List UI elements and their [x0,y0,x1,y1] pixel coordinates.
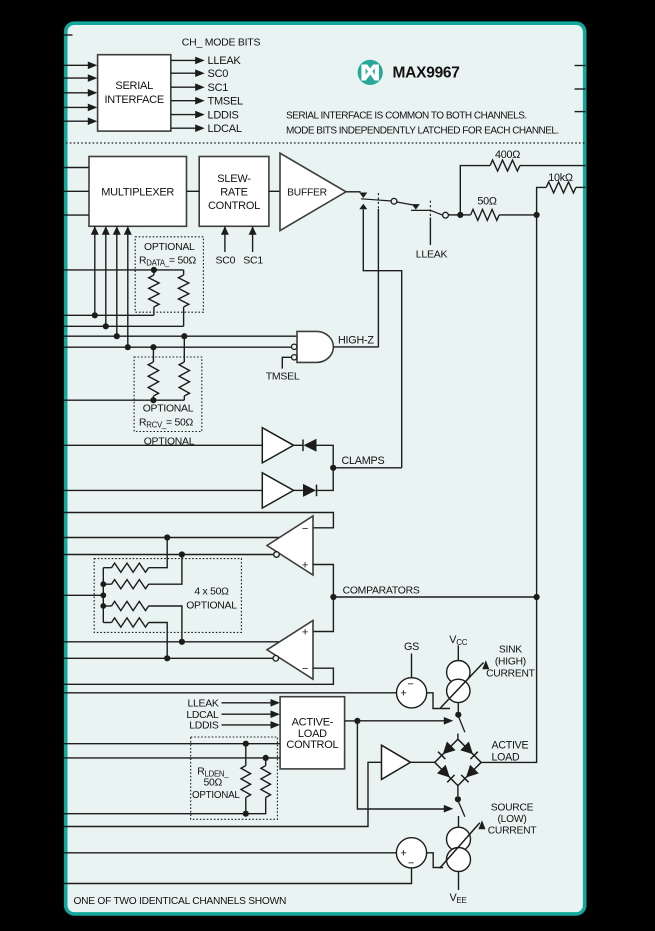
resistor T3 [103,601,182,641]
diode bridge TL [438,742,456,760]
caption [74,896,287,907]
svg-text:MODE BITS INDEPENDENTLY LATCHE: MODE BITS INDEPENDENTLY LATCHED FOR EACH… [286,125,559,136]
svg-text:SC1: SC1 [208,82,229,94]
svg-text:(LOW): (LOW) [497,814,526,825]
wire source amp out [427,853,443,868]
svg-text:LOAD: LOAD [492,752,520,764]
note text [286,110,559,136]
wire bridge right label [492,739,529,763]
wire clamp top diode lead [294,444,303,446]
svg-text:RATE: RATE [220,187,248,199]
wire gs out [427,693,450,709]
wire comp2 minus [64,668,333,684]
dashed separator [66,142,586,144]
and gate U3 [292,331,334,362]
junction node A [457,212,463,218]
wire bus B [64,325,184,327]
junction comp2 edge [179,639,185,645]
svg-text:400Ω: 400Ω [495,149,520,161]
svg-text:SOURCE: SOURCE [491,802,534,813]
svg-text:CH_ MODE BITS: CH_ MODE BITS [182,37,261,49]
wire highz out [334,346,379,348]
svg-text:10kΩ: 10kΩ [548,172,573,184]
wire sink switch in [357,717,453,725]
wire serial output LDCAL [171,123,242,135]
svg-text:CONTROL: CONTROL [286,739,338,751]
resistor 400 [490,149,520,171]
svg-text:BUFFER: BUFFER [287,188,327,199]
wire mux input 1 [64,167,89,169]
svg-text:TMSEL: TMSEL [266,371,300,383]
wire comparators out [333,596,536,598]
diode D1 [303,439,317,452]
label source current [488,802,538,836]
label sink current [486,644,536,679]
wire source lead [458,816,460,827]
wire serial input 5 [64,117,97,125]
svg-text:SC1: SC1 [243,255,263,267]
wire gs stub [411,654,413,678]
switch S2 lever [411,210,443,215]
label COMPARATORS [343,585,420,596]
resistor T1 [103,538,167,573]
wire 400 riser [460,166,490,215]
svg-text:CONTROL: CONTROL [208,200,260,212]
resistor RLDEN2 [246,758,271,814]
junction 4x50 in [100,592,106,598]
svg-text:ONE OF TWO IDENTICAL CHANNELS: ONE OF TWO IDENTICAL CHANNELS SHOWN [74,896,287,907]
label GS [404,641,419,653]
comparator U4 [267,516,313,575]
wire serial output SC0 [171,68,228,80]
svg-text:LDDIS: LDDIS [208,109,239,121]
optional RRCV box [134,357,202,432]
wire SC1 [243,226,263,266]
lleak control dashed [429,201,431,218]
wire comp1 edge in [64,537,280,539]
resistor RRCV1 [148,347,158,400]
buffer U2 [280,153,346,230]
wire clamp feedback [359,204,401,468]
label CLAMPS [342,455,385,467]
wire rlden bottom [64,813,246,815]
wire bridge top [457,734,459,740]
junction rrcv left top [150,344,156,350]
right edge stub 2 [575,88,586,90]
label optional clamps [144,437,195,448]
wire pole to node A [448,214,458,216]
current source source [440,820,486,871]
svg-text:LLEAK: LLEAK [416,249,448,261]
svg-text:50Ω: 50Ω [477,195,497,207]
wire comp1 bubble in [64,554,274,556]
wire node C down [481,597,536,762]
label LLEAK switch [416,249,448,261]
vee label [449,892,466,905]
svg-text:SINK: SINK [499,644,522,655]
label HIGH-Z [338,334,374,346]
junction mux tap 3 [114,333,120,339]
svg-text:TMSEL: TMSEL [208,96,244,108]
clamp buffer bottom [262,473,293,508]
vcc label [449,634,467,647]
resistor RDATA1 [149,270,159,315]
svg-text:LLEAK: LLEAK [208,55,242,67]
svg-text:ACTIVE: ACTIVE [492,739,529,751]
wire serial output LDDIS [171,109,239,121]
wire clamp top out [317,445,334,468]
svg-text:OPTIONAL: OPTIONAL [192,790,240,801]
resistor RDATA2 [178,270,188,326]
wire bridge bottom [457,786,459,796]
wire gs in [64,692,397,694]
svg-text:LDCAL: LDCAL [186,710,219,721]
highz control dashed [377,193,379,209]
junction node B [534,212,540,218]
svg-text:GS: GS [404,641,419,653]
wire 50 to node B [499,214,536,216]
serial interface box U1 [98,55,171,131]
switch S1 pole [391,198,397,204]
wire serial output TMSEL [171,96,243,108]
wire bus A [64,314,154,316]
junction rrcv right top [181,333,187,339]
resistor 50 [471,195,500,220]
wire clamp top in [64,444,262,446]
wire rrcv bottom [64,399,184,401]
svg-text:OPTIONAL: OPTIONAL [143,404,194,415]
svg-text:COMPARATORS: COMPARATORS [343,585,420,596]
wire mux tap 4 [124,226,132,347]
junction comp1 bubble [179,551,185,557]
junction comparators [330,594,336,600]
svg-text:CURRENT: CURRENT [486,669,536,680]
junction 4x50 r3 [100,603,106,609]
wire tmsel [282,357,291,368]
wire source amp in [64,852,396,854]
svg-text:(HIGH): (HIGH) [495,657,526,668]
wire vee lead [458,872,460,890]
svg-text:MAX9967: MAX9967 [393,64,460,81]
wire sink to switch [457,702,459,711]
wire alc out [345,720,358,722]
junction rlden1 [243,741,249,747]
svg-text:CURRENT: CURRENT [488,825,538,836]
optional 4x50 box [94,559,241,633]
svg-text:LLEAK: LLEAK [187,699,218,710]
svg-text:+: + [400,688,406,700]
switch S2 pole [443,212,449,218]
wire serial input 4 [64,104,97,112]
junction rlden2 [263,755,269,761]
wire mux tap 1 [91,226,99,315]
wire mux tap 3 [113,226,121,336]
wire serial output SC1 [171,82,228,94]
wire mux input 2 [64,190,89,192]
wire alc LLEAK [187,699,280,710]
junction mux tap 2 [103,323,109,329]
wire node A to 50 [460,214,470,216]
wire comp1 minus [64,513,333,528]
multiplexer box [89,157,187,227]
junction clamps [330,465,336,471]
junction comp1 edge [164,534,170,540]
wire comp1 plus [313,565,333,598]
left edge stub [64,34,73,36]
resistor RLDEN1 [241,744,251,814]
svg-text:+: + [400,848,406,860]
wire serial input 2 [64,74,97,82]
svg-text:−: − [407,679,413,691]
wire alc LDCAL [186,710,280,721]
junction node C [534,594,540,600]
svg-text:−: − [302,523,308,535]
wire source amp fb [64,868,412,884]
junction rdata top [151,267,157,273]
wire clamp bottom in [64,489,262,491]
svg-text:HIGH-Z: HIGH-Z [338,334,374,346]
svg-text:−: − [302,663,308,675]
resistor RRCV2 [179,336,189,400]
svg-text:LDCAL: LDCAL [208,123,242,135]
diode bridge TR [460,742,478,760]
active-load control box [280,697,345,769]
wire comp2 edge in [64,641,280,643]
optional RLDEN box [191,737,278,819]
driver U6 [382,745,411,779]
svg-text:MULTIPLEXER: MULTIPLEXER [101,187,174,199]
diode bridge BL [437,765,455,783]
wire alc to source switch [357,721,453,813]
wire alc LDDIS [189,721,280,732]
svg-text:OPTIONAL: OPTIONAL [144,242,195,253]
wire vcc stub [457,646,459,661]
svg-text:ACTIVE-: ACTIVE- [292,717,334,729]
switch S3 lever [459,717,465,732]
svg-text:INTERFACE: INTERFACE [104,94,163,106]
junction comp2 bubble [164,655,170,661]
switch S1 contact [359,193,367,199]
svg-text:SC0: SC0 [208,68,229,80]
wire 10k to edge [576,186,586,188]
wire clamp bottom diode lead [294,489,303,491]
wire rlden in2 [64,757,280,759]
wire bus D [64,346,291,348]
resistor T4 [103,618,167,658]
label TMSEL [266,371,300,383]
current source sink [441,660,490,708]
wire node B down [536,215,538,597]
wire slew to buffer [269,190,280,192]
label CH_ MODE BITS [182,37,261,49]
junction source switch [455,796,461,802]
svg-text:−: − [408,858,414,870]
svg-text:OPTIONAL: OPTIONAL [186,600,237,611]
wire mux input 3 [64,214,89,216]
junction sink switch [455,712,461,718]
wire rlden in1 [64,743,280,745]
svg-text:+: + [302,560,308,572]
svg-text:4 x 50Ω: 4 x 50Ω [194,587,229,598]
comparator U5 [267,621,313,680]
switch S4 lever [459,802,465,817]
junction mux tap 4 [125,344,131,350]
wire 4x50 bus [102,568,104,623]
switch S1 lever [361,199,413,205]
right edge stub 3 [575,111,586,113]
junction mux tap 1 [92,312,98,318]
wire 4x50 in [64,594,103,596]
wire bus C [64,335,297,337]
wire clamp bottom out [317,468,334,491]
junction 4x50 r2 [100,581,106,587]
clamp buffer top [262,428,293,463]
opamp source [396,838,426,870]
junction alc out [354,718,360,724]
wire load in [64,762,382,826]
wire lleak stub [429,218,431,246]
resistor 10k [546,172,576,193]
wire mux to slew [187,190,200,192]
svg-text:LDDIS: LDDIS [189,721,219,732]
bridge diamond [435,739,481,785]
wire mux tap 2 [102,226,110,326]
opamp GS [397,678,427,708]
diode D2 [303,484,317,497]
resistor T2 [103,555,182,589]
wire comp2 plus [313,597,333,632]
wire rdata top [64,269,184,271]
svg-text:CLAMPS: CLAMPS [342,455,385,467]
junction rlden bottom [243,811,249,817]
wire buffer output [346,191,361,193]
wire serial output LLEAK [171,55,242,67]
svg-text:SC0: SC0 [216,255,236,267]
svg-text:50Ω: 50Ω [204,777,223,788]
junction rrcv bottom [150,397,156,403]
wire clamps to riser [333,467,402,469]
diode bridge BR [461,765,479,783]
wire comp2 bubble in [64,657,273,659]
switch S2 contact [412,204,420,210]
slew-rate control box [199,157,269,227]
wire highz riser [377,209,379,347]
wire serial input 3 [64,89,97,97]
wire 400 to edge [520,165,586,167]
svg-text:+: + [302,626,308,638]
svg-text:SERIAL INTERFACE IS COMMON TO: SERIAL INTERFACE IS COMMON TO BOTH CHANN… [286,110,527,121]
wire driver to bridge [411,761,435,763]
wire 10k riser [537,187,547,215]
svg-text:SERIAL: SERIAL [115,80,153,92]
wire serial input 1 [64,62,97,70]
svg-text:LOAD: LOAD [298,728,327,740]
svg-text:SLEW-: SLEW- [217,173,251,185]
wire SC0 [216,226,236,266]
optional RDATA box [135,237,203,312]
logo MAX9967 [358,60,460,85]
right edge stub 1 [575,65,586,67]
